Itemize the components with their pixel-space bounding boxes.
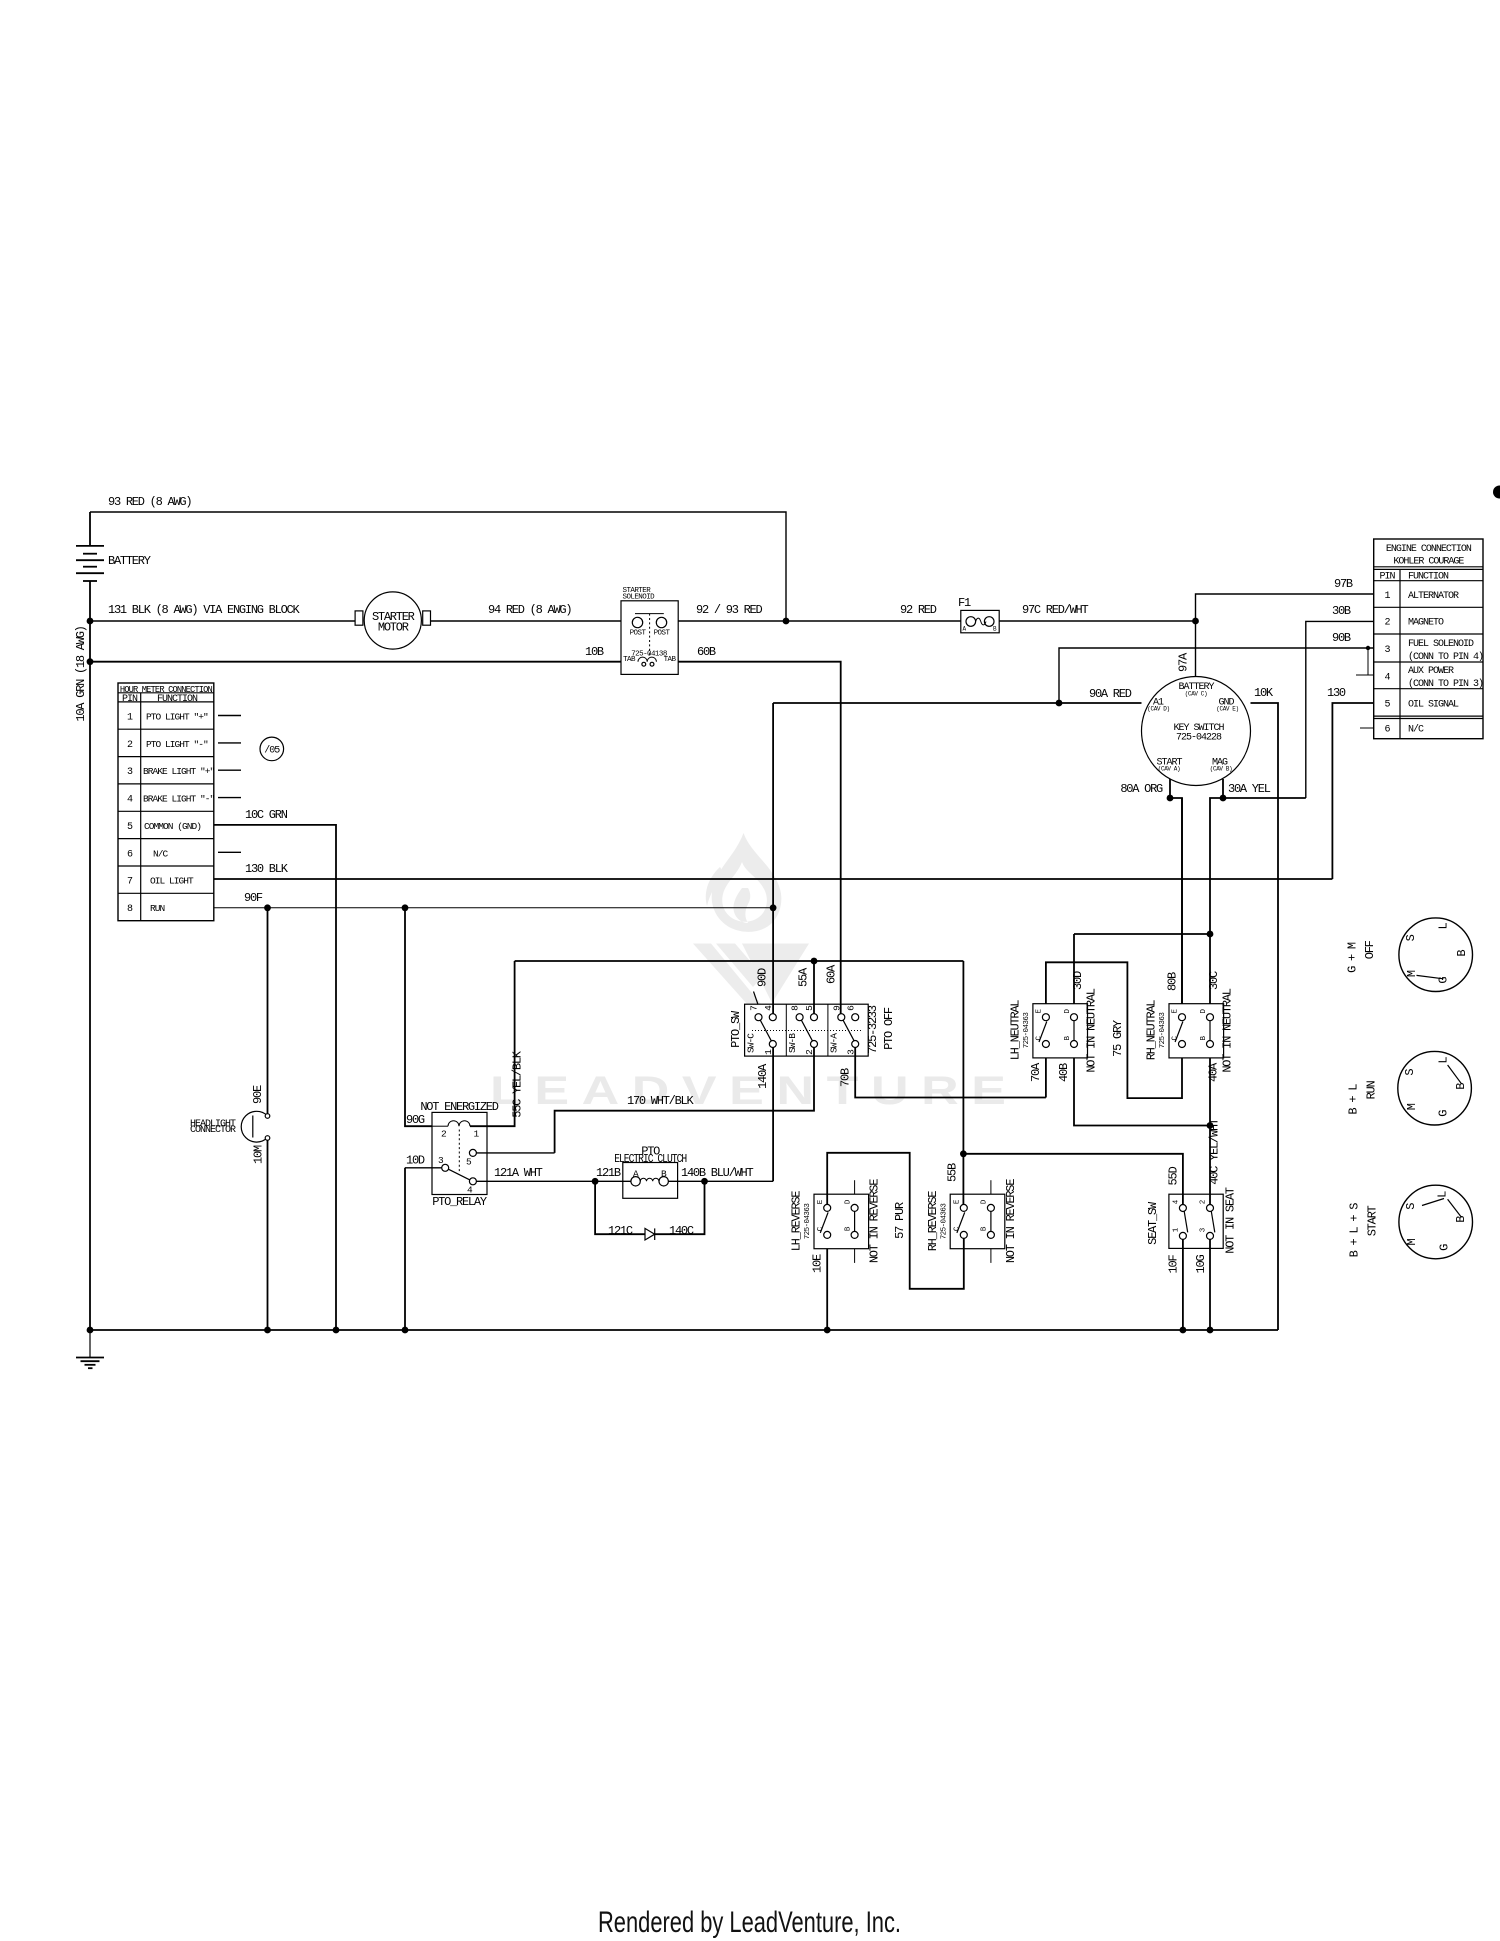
wire 55B [946,961,964,1204]
svg-text:Rendered by LeadVenture, Inc.: Rendered by LeadVenture, Inc. [598,1906,901,1939]
svg-text:55D: 55D [1167,1167,1181,1186]
svg-text:B + L + S: B + L + S [1347,1203,1361,1258]
hour meter connection table [118,683,215,921]
node battery ground junction [87,658,94,665]
svg-text:PTO OFF: PTO OFF [882,1007,896,1050]
svg-text:10M: 10M [252,1145,266,1164]
svg-text:PTO_SW: PTO_SW [729,1010,743,1048]
svg-text:94 RED (8 AWG): 94 RED (8 AWG) [488,603,571,617]
svg-text:93 RED (8 AWG): 93 RED (8 AWG) [108,495,191,509]
svg-text:5: 5 [466,1157,472,1168]
svg-text:7: 7 [127,877,133,888]
svg-text:BATTERY: BATTERY [108,554,151,568]
wire 90D [756,703,774,1014]
svg-text:40C YEL/WHT: 40C YEL/WHT [1208,1118,1222,1185]
wire 131 BLK (8 AWG) VIA ENGING BLOCK [90,603,355,621]
wire ground rail [90,1329,1278,1331]
key switch U1 [1142,677,1251,786]
wire 80B [1166,798,1183,1004]
svg-text:NOT IN REVERSE: NOT IN REVERSE [1004,1179,1018,1263]
node rail junction 10F [1180,1327,1187,1334]
svg-text:S: S [1403,1069,1417,1076]
svg-text:131 BLK (8 AWG) VIA ENGING BLO: 131 BLK (8 AWG) VIA ENGING BLOCK [108,603,300,617]
svg-text:(CAV C): (CAV C) [1185,691,1207,698]
node /05 revision circle [260,737,284,761]
svg-text:1: 1 [1172,1227,1180,1232]
svg-text:8: 8 [790,1005,801,1011]
svg-text:N/C: N/C [153,848,169,859]
svg-text:E: E [1036,1008,1044,1013]
watermark LEADVENTURE text [490,1068,1006,1113]
svg-text:MOTOR: MOTOR [378,621,409,635]
node 30C junction [1207,931,1214,938]
node 90E branch junction [264,904,271,911]
node rail junction battery [87,1327,94,1334]
svg-text:90D: 90D [756,968,770,987]
svg-text:30A YEL: 30A YEL [1228,782,1271,796]
svg-text:B + L: B + L [1347,1084,1361,1115]
svg-text:PIN: PIN [122,694,138,705]
svg-text:TAB: TAB [623,656,636,664]
node 55A junction [811,958,818,965]
svg-text:L: L [1435,1191,1449,1198]
svg-text:92 RED: 92 RED [900,603,937,617]
wire 55D [963,1154,1183,1205]
switch PTO_SW section SW-B pins 8-5-2 [796,1014,803,1021]
wire 10A GRN (18 AWG) left vertical [74,581,90,1330]
svg-text:POST: POST [630,630,647,638]
key position legend RUN circle [1347,1051,1472,1125]
svg-text:NOT IN NEUTRAL: NOT IN NEUTRAL [1085,988,1099,1072]
svg-text:121C: 121C [608,1224,633,1238]
svg-text:725-04228: 725-04228 [1176,733,1222,744]
wire 97C RED/WHT [999,603,1195,621]
wire 10G [1194,1239,1210,1330]
svg-text:70B: 70B [839,1068,853,1087]
svg-text:55A: 55A [797,967,811,987]
svg-text:NOT IN SEAT: NOT IN SEAT [1224,1187,1238,1254]
top right edge mark [1493,486,1500,499]
wire 140B BLU/WHT [668,1166,773,1181]
svg-text:4: 4 [1384,672,1390,683]
wire stub engine pin 6 N/C [1360,727,1374,729]
svg-text:L: L [1437,1057,1451,1064]
svg-text:4: 4 [127,795,133,806]
svg-text:(CONN TO PIN 4): (CONN TO PIN 4) [1408,651,1483,663]
svg-text:140B BLU/WHT: 140B BLU/WHT [681,1166,753,1180]
svg-text:5: 5 [1384,699,1390,710]
svg-text:725-04363: 725-04363 [1159,1012,1167,1049]
wire 30C [1207,934,1221,1004]
svg-text:140A: 140A [756,1063,770,1089]
wire 30D [1071,934,1210,1004]
node solenoid output junction [783,618,790,625]
svg-text:RUN: RUN [1365,1081,1379,1100]
wire 140A [756,1048,773,1182]
svg-text:G: G [1437,1110,1451,1117]
svg-text:57 PUR: 57 PUR [893,1202,907,1239]
svg-text:KOHLER COURAGE: KOHLER COURAGE [1393,557,1464,568]
wire 75 GRY [1046,962,1182,1098]
svg-text:4: 4 [763,1005,774,1011]
svg-text:4: 4 [1172,1199,1180,1204]
svg-text:COMMON (GND): COMMON (GND) [144,821,201,832]
node 30A junction [1220,795,1227,802]
node battery positive junction [87,618,94,625]
wire 130 BLK [214,862,1333,879]
switch SEAT_SW [1146,1187,1238,1254]
svg-text:(CAV A): (CAV A) [1158,766,1180,773]
wire 10E [811,1249,828,1330]
svg-text:75 GRY: 75 GRY [1111,1020,1125,1057]
svg-text:RUN: RUN [150,903,165,914]
svg-text:130 BLK: 130 BLK [245,862,289,876]
wire 10K [1251,686,1279,1330]
svg-text:M: M [1405,1103,1419,1110]
wire 55C YEL/BLK [470,961,525,1126]
svg-text:10B: 10B [585,645,604,659]
node rail junction 10E [824,1327,831,1334]
switch LH_NEUTRAL 725-04363 [1009,988,1099,1072]
svg-text:MAGNETO: MAGNETO [1408,618,1444,629]
svg-text:2: 2 [441,1129,447,1140]
wire stub hour meter pin 3 [218,769,241,771]
svg-text:8: 8 [127,904,133,915]
wire 40C YEL/WHT [1208,1118,1222,1204]
svg-text:10C GRN: 10C GRN [245,808,288,822]
svg-text:40B: 40B [1057,1063,1071,1082]
svg-text:3: 3 [127,767,133,778]
svg-text:F1: F1 [958,596,971,610]
svg-text:10G: 10G [1194,1255,1208,1274]
wire 10F [1167,1239,1183,1330]
svg-text:SW-C: SW-C [746,1033,757,1053]
wire 10C GRN [214,808,336,1330]
svg-text:LH_REVERSE: LH_REVERSE [790,1191,804,1252]
node rail junction 10D [402,1327,409,1334]
svg-text:60A: 60A [824,964,838,984]
wire 10D [405,1154,442,1331]
svg-text:M: M [1405,1238,1419,1245]
wire 90F [214,891,773,908]
svg-text:FUNCTION: FUNCTION [157,694,198,705]
svg-text:D: D [981,1199,989,1204]
svg-text:725-04363: 725-04363 [1023,1012,1031,1049]
svg-text:D: D [1200,1008,1208,1013]
wire 92 / 93 RED [678,603,961,621]
svg-text:NOT ENERGIZED: NOT ENERGIZED [420,1100,498,1114]
clutch PTO ELECTRIC CLUTCH [614,1145,687,1199]
svg-text:C: C [1036,1035,1044,1040]
svg-text:C: C [817,1226,825,1231]
wire 90A RED [773,687,1141,703]
wire stub hour meter pin 2 [218,742,241,744]
svg-text:RH_REVERSE: RH_REVERSE [926,1191,940,1252]
node 80A corner [1167,795,1174,802]
switch RH_REVERSE 725-04363 [926,1179,1018,1263]
diode D1 bypass [595,1181,704,1240]
node clutch B junction [701,1178,708,1185]
node rail junction 10G [1207,1327,1214,1334]
node 90G branch junction [402,904,409,911]
wire 90G [405,908,432,1127]
wire 10B [90,645,621,662]
wire 170 WHT/BLK [476,1048,814,1153]
svg-text:LEADVENTURE: LEADVENTURE [490,1068,1006,1113]
node clutch A junction [592,1178,599,1185]
key position legend START circle [1347,1185,1472,1259]
svg-text:NOT IN NEUTRAL: NOT IN NEUTRAL [1221,988,1235,1072]
ground symbol [76,1330,104,1368]
svg-text:121A WHT: 121A WHT [494,1166,543,1180]
svg-text:B: B [1455,950,1469,957]
svg-text:2: 2 [127,740,133,751]
svg-text:30B: 30B [1332,604,1351,618]
svg-text:30C: 30C [1207,971,1221,990]
wire stub hour meter pin 6 [218,851,241,853]
wire 10M [252,1140,268,1330]
svg-text:S: S [1404,1203,1418,1210]
svg-text:G + M: G + M [1346,942,1360,973]
svg-text:N/C: N/C [1408,723,1424,735]
wire 60B [678,645,841,1014]
switch PTO_SW section SW-A pins 9-6-3 [838,1014,845,1021]
wire 80A ORG [1120,779,1182,1004]
node key switch battery junction [1192,618,1199,625]
wire 55A [797,961,815,1014]
svg-text:TAB: TAB [664,656,677,664]
svg-text:B: B [1064,1035,1072,1040]
wire stub hour meter pin 1 [218,715,241,717]
svg-text:LH_NEUTRAL: LH_NEUTRAL [1009,1000,1023,1061]
svg-text:S: S [1404,934,1418,941]
svg-text:ALTERNATOR: ALTERNATOR [1408,591,1459,602]
node 40C junction [1207,1122,1214,1129]
wire 121B [596,1166,621,1180]
svg-text:NOT IN REVERSE: NOT IN REVERSE [868,1179,882,1263]
svg-text:BRAKE LIGHT "+": BRAKE LIGHT "+" [143,766,215,777]
wire 57 PUR [827,1153,964,1289]
svg-text:D: D [844,1199,852,1204]
svg-text:SOLENOID: SOLENOID [623,594,656,602]
svg-text:90B: 90B [1332,631,1351,645]
svg-text:10A GRN (18 AWG): 10A GRN (18 AWG) [74,626,88,721]
svg-text:E: E [1172,1008,1180,1013]
wire 70A [1029,1058,1046,1098]
wire 55 bus horizontal [515,960,964,962]
svg-text:80A ORG: 80A ORG [1120,782,1163,796]
svg-text:1: 1 [1384,591,1390,602]
svg-text:(CAV B): (CAV B) [1210,766,1232,773]
svg-text:30D: 30D [1071,971,1085,990]
wire link engine pin 3 to pin 4 [1356,646,1374,675]
svg-text:B: B [981,1226,989,1231]
starter motor [355,592,430,649]
svg-text:2: 2 [1200,1200,1208,1204]
svg-text:SW-B: SW-B [787,1033,798,1053]
svg-text:6: 6 [127,849,133,860]
svg-text:C: C [1172,1035,1180,1040]
svg-text:OIL LIGHT: OIL LIGHT [150,876,194,887]
wire 40B [1057,1058,1210,1126]
node 90D branch junction [770,904,777,911]
node rail junction 10M [264,1327,271,1334]
svg-text:4: 4 [467,1185,473,1196]
svg-text:10K: 10K [1254,686,1274,700]
svg-text:C: C [953,1226,961,1231]
switch LH_REVERSE 725-04363 [790,1179,882,1263]
svg-text:90G: 90G [406,1113,425,1127]
svg-text:140C: 140C [669,1224,694,1238]
battery [76,512,151,581]
svg-text:10F: 10F [1167,1255,1181,1274]
watermark flame logo [706,833,782,932]
headlight connector [190,1111,270,1142]
svg-text:10E: 10E [811,1254,825,1273]
wire 97B to engine pin 1 [1196,577,1374,621]
svg-text:B: B [1200,1035,1208,1040]
svg-text:ENGINE CONNECTION: ENGINE CONNECTION [1386,544,1472,555]
wire 30B to engine pin 2 [1306,604,1374,798]
svg-text:6: 6 [845,1005,856,1011]
switch PTO_SW section SW-C pins 7-4-1 [755,1014,762,1021]
svg-text:PTO LIGHT "-": PTO LIGHT "-" [146,739,208,750]
svg-text:40A: 40A [1207,1062,1221,1082]
svg-text:121B: 121B [596,1166,621,1180]
svg-text:POST: POST [654,630,671,638]
svg-text:2: 2 [1384,618,1390,629]
svg-text:170 WHT/BLK: 170 WHT/BLK [627,1094,695,1108]
node rail junction 10C [333,1327,340,1334]
svg-text:3: 3 [1200,1227,1208,1232]
svg-text:L: L [1437,922,1451,929]
svg-text:6: 6 [1384,724,1390,735]
svg-text:92 / 93 RED: 92 / 93 RED [696,603,763,617]
svg-text:725-3233: 725-3233 [866,1005,880,1054]
svg-text:OFF: OFF [1363,940,1377,959]
svg-text:97C RED/WHT: 97C RED/WHT [1022,603,1089,617]
wire 30A YEL [1210,779,1306,934]
svg-text:3: 3 [1384,645,1390,656]
svg-text:70A: 70A [1029,1062,1043,1082]
svg-text:1: 1 [763,1049,774,1055]
switch RH_NEUTRAL 725-04363 [1145,988,1235,1072]
starter solenoid [621,587,678,674]
svg-text:97B: 97B [1334,577,1353,591]
svg-text:97A: 97A [1177,652,1191,672]
fuse F1 [958,596,999,633]
svg-text:G: G [1438,1244,1452,1251]
wire 70B [839,1048,1046,1098]
svg-text:OIL SIGNAL: OIL SIGNAL [1408,699,1459,710]
svg-text:CONNECTOR: CONNECTOR [190,1125,236,1136]
svg-text:(CAV E): (CAV E) [1216,706,1238,713]
svg-text:E: E [817,1199,825,1204]
svg-text:7: 7 [749,1006,760,1011]
watermark V mark [693,944,809,1005]
svg-text:1: 1 [127,713,133,724]
svg-text:PTO LIGHT "+": PTO LIGHT "+" [146,712,208,723]
key position legend OFF circle [1346,918,1473,992]
svg-text:725-04138: 725-04138 [631,651,667,659]
svg-text:725-04363: 725-04363 [941,1203,949,1240]
wire 94 RED (8 AWG) [431,603,622,621]
svg-text:SEAT_SW: SEAT_SW [1146,1201,1160,1245]
svg-text:ELECTRIC CLUTCH: ELECTRIC CLUTCH [614,1152,687,1166]
svg-text:RH_NEUTRAL: RH_NEUTRAL [1145,1000,1159,1061]
svg-text:SW-A: SW-A [829,1033,840,1053]
svg-text:130: 130 [1327,686,1346,700]
wire 90E [251,908,268,1115]
node 90B branch junction [1056,700,1063,707]
svg-text:725-04363: 725-04363 [804,1203,812,1240]
svg-text:(CONN TO PIN 3): (CONN TO PIN 3) [1408,678,1483,690]
svg-text:1: 1 [474,1129,480,1140]
wire 90B to engine pin 3 [1059,631,1374,703]
svg-text:55B: 55B [946,1163,960,1182]
engine connection table [1374,539,1483,739]
svg-text:AUX POWER: AUX POWER [1408,666,1454,677]
svg-text:10D: 10D [406,1154,425,1168]
wire 121A WHT [476,1166,631,1181]
node 55D junction [960,1150,967,1157]
svg-text:/05: /05 [264,745,280,757]
wire stub hour meter pin 4 [218,797,241,799]
svg-text:BRAKE LIGHT "-": BRAKE LIGHT "-" [143,794,215,805]
svg-text:START: START [1365,1205,1379,1236]
svg-text:55C YEL/BLK: 55C YEL/BLK [511,1050,525,1118]
svg-text:60B: 60B [697,645,716,659]
relay K1 PTO_RELAY [420,1100,498,1209]
wire 97A key switch feed [1177,621,1196,677]
svg-text:B: B [844,1226,852,1231]
svg-text:90A RED: 90A RED [1089,687,1132,701]
svg-text:80B: 80B [1166,972,1180,991]
wire 40A [1207,1058,1221,1126]
svg-text:PTO_RELAY: PTO_RELAY [432,1195,487,1209]
wire 130 to engine pin 5 [1327,686,1374,879]
svg-text:5: 5 [127,822,133,833]
svg-text:FUEL SOLENOID: FUEL SOLENOID [1408,639,1474,650]
svg-text:90F: 90F [244,891,263,905]
svg-text:D: D [1064,1008,1072,1013]
switch PTO_SW 725-3233 [729,992,896,1057]
svg-text:(CAV D): (CAV D) [1147,706,1169,713]
svg-text:90E: 90E [251,1085,265,1104]
svg-text:E: E [953,1199,961,1204]
wire 93 RED (8 AWG) top rail [90,495,786,621]
